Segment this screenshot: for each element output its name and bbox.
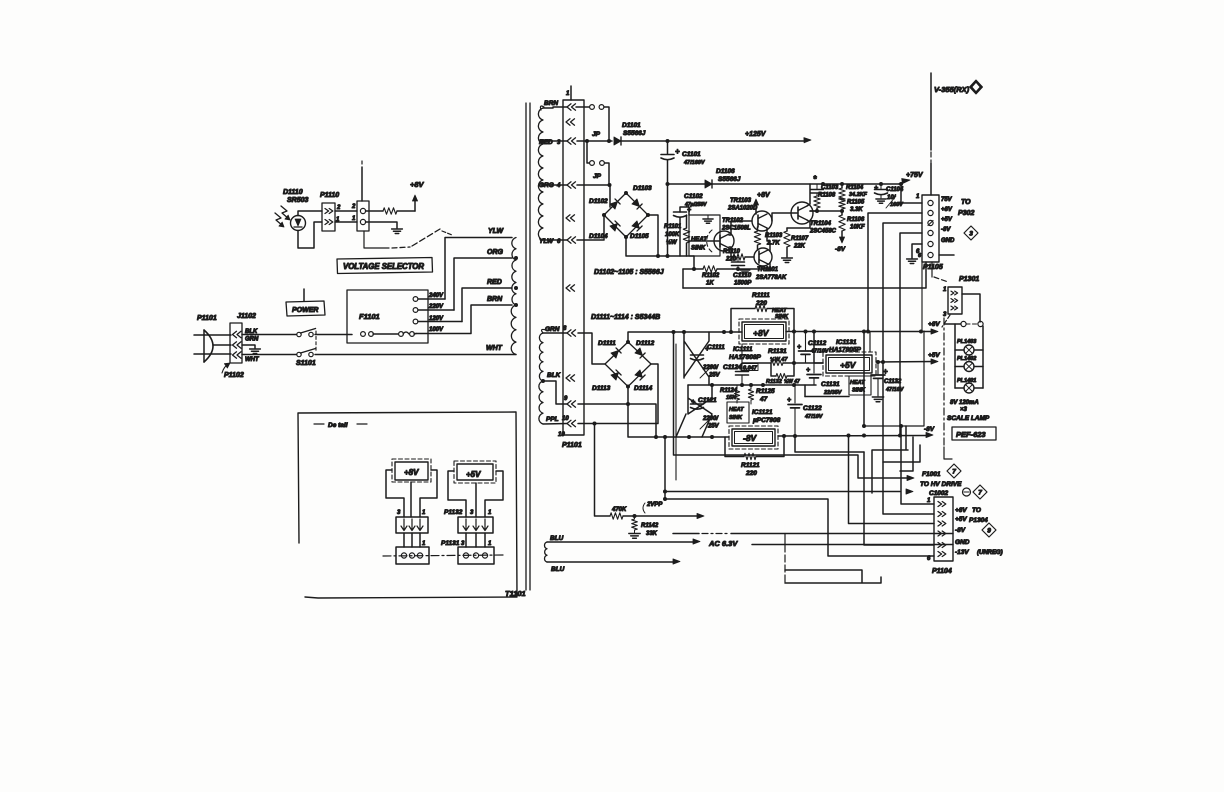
wire	[595, 424, 611, 517]
wire	[298, 222, 322, 248]
connector P1110	[320, 192, 341, 231]
connector P1104	[927, 497, 953, 575]
connector (lower left)	[396, 541, 429, 564]
diamond 7	[947, 464, 961, 478]
wire BRN	[416, 296, 512, 334]
wire +8V unreg rail	[628, 330, 742, 342]
svg-text:D1114: D1114	[634, 385, 653, 392]
node arrow TO HV	[907, 475, 914, 480]
svg-text:+: +	[874, 185, 878, 192]
pin pin3 contact	[567, 138, 576, 144]
wire	[577, 139, 612, 143]
label BLK	[547, 372, 562, 379]
wire	[793, 332, 795, 364]
resistor R1142 33K	[632, 516, 659, 537]
wire X	[676, 385, 712, 437]
heat sink (IC1121)	[727, 402, 749, 423]
pin contact (unused)	[566, 119, 575, 125]
svg-text:SR503: SR503	[287, 197, 309, 204]
svg-text:D1104: D1104	[589, 233, 608, 240]
svg-text:C1112: C1112	[808, 340, 827, 347]
wire heater	[752, 544, 934, 546]
label POWER	[286, 289, 325, 316]
node +8V	[753, 192, 771, 214]
svg-text:µPC7908: µPC7908	[752, 417, 781, 424]
resistor R1132	[766, 363, 800, 385]
transformer primary winding	[511, 238, 516, 355]
svg-text:+: +	[675, 147, 680, 156]
node -8V arrow	[924, 426, 935, 438]
ground (P1105)	[907, 244, 922, 264]
pin contact (unused)	[566, 375, 575, 381]
svg-text:RED: RED	[539, 139, 553, 146]
label D1114	[634, 385, 653, 392]
svg-text:10: 10	[558, 432, 565, 438]
svg-text:J1102: J1102	[237, 313, 256, 320]
pin pin10 contact	[567, 420, 576, 426]
wire	[812, 330, 870, 364]
label D1113	[592, 385, 611, 392]
svg-text:*: *	[813, 174, 817, 184]
svg-text:BLK: BLK	[547, 372, 562, 379]
svg-text:S1101: S1101	[296, 360, 316, 367]
svg-text:½W 47: ½W 47	[770, 356, 788, 363]
svg-text:C1124: C1124	[723, 364, 742, 371]
connector P1101 (AC plug)	[194, 315, 231, 362]
svg-text:RED: RED	[487, 279, 502, 286]
capacitor C1122	[787, 385, 824, 436]
label TO HV DRIVE	[920, 481, 962, 488]
svg-text:C1002: C1002	[929, 490, 949, 497]
svg-text:D1111~1114 : S5344B: D1111~1114 : S5344B	[591, 314, 660, 321]
node +5V arrow	[928, 352, 940, 364]
wire ORG	[454, 249, 512, 310]
block IC1121 -8V	[729, 426, 778, 449]
svg-text:C1111: C1111	[707, 344, 725, 351]
svg-text:2SC1508L: 2SC1508L	[721, 226, 751, 232]
svg-text:+8V: +8V	[757, 192, 771, 199]
label YLW 6	[539, 238, 561, 245]
svg-text:½W 47: ½W 47	[784, 378, 800, 385]
wire +8V bus	[868, 213, 922, 331]
wire	[543, 107, 567, 108]
wire	[298, 211, 322, 216]
svg-text:C1101: C1101	[682, 151, 701, 158]
node +8V	[410, 180, 425, 211]
wire	[934, 534, 953, 545]
svg-text:25V: 25V	[707, 424, 720, 430]
wire	[335, 211, 357, 222]
svg-text:D1110: D1110	[283, 189, 303, 196]
resistor (P1110 pin2 to +8V)	[366, 208, 416, 214]
wire +5V out	[876, 360, 935, 364]
connector J1102	[230, 313, 260, 363]
svg-text:S5566J: S5566J	[718, 176, 741, 183]
transistor TR1102 2SC1508L	[707, 218, 751, 252]
wire	[648, 215, 658, 256]
svg-text:JP: JP	[593, 173, 602, 180]
resistor R1124 15K	[720, 385, 740, 403]
svg-text:R1125: R1125	[756, 388, 775, 395]
svg-text:S5566J: S5566J	[623, 130, 646, 137]
svg-text:TO: TO	[972, 507, 981, 514]
svg-text:R1110: R1110	[723, 249, 740, 255]
wire lamp rails	[955, 324, 983, 388]
svg-text:GRN: GRN	[545, 326, 560, 333]
wire RED	[462, 279, 512, 322]
wire	[410, 482, 412, 517]
transformer secondary (upper)	[538, 106, 544, 240]
wire -13V line	[673, 533, 934, 535]
svg-text:2SA778AK: 2SA778AK	[755, 275, 787, 281]
wire gnd bus	[921, 262, 923, 331]
label 9	[564, 396, 568, 402]
fuse F1101	[347, 290, 428, 343]
resistor 470K	[610, 507, 634, 519]
svg-text:34.2KF: 34.2KF	[849, 192, 868, 198]
pin contact (unused)	[566, 215, 575, 221]
block +5V (detail)	[454, 461, 496, 483]
svg-text:7: 7	[978, 490, 982, 497]
svg-text:47/10V: 47/10V	[885, 387, 905, 393]
node taps	[514, 139, 545, 383]
svg-text:+8V: +8V	[941, 207, 953, 213]
wire	[729, 221, 752, 235]
svg-text:D1106: D1106	[716, 168, 735, 175]
svg-text:BLU: BLU	[550, 535, 564, 542]
resistor R1103 2.7K	[754, 227, 783, 250]
svg-text:7: 7	[952, 469, 956, 476]
label BRN	[544, 100, 558, 107]
svg-text:8V 120mA: 8V 120mA	[950, 400, 979, 406]
svg-text:IC1121: IC1121	[752, 409, 773, 416]
label IC1121	[752, 409, 781, 424]
svg-text:P1110: P1110	[320, 192, 339, 199]
node AC 6.3V arrows	[673, 539, 738, 564]
label PEF-623	[944, 427, 996, 459]
svg-text:GND: GND	[955, 539, 970, 546]
transformer T1101 core	[505, 103, 530, 598]
diamond 7b	[973, 485, 987, 499]
node 100V tap	[429, 327, 444, 333]
svg-text:100V: 100V	[429, 327, 444, 333]
label GND	[955, 539, 970, 546]
connector P1301	[943, 287, 962, 318]
svg-text:2VPP: 2VPP	[646, 502, 663, 508]
resistor R1101 100K	[664, 215, 690, 256]
svg-text:47/10V: 47/10V	[804, 414, 824, 420]
capacitor C1102	[674, 193, 708, 256]
svg-text:WHT: WHT	[486, 345, 503, 352]
svg-text:P1105: P1105	[923, 264, 943, 271]
wire	[578, 402, 656, 437]
wire	[315, 334, 352, 336]
wire	[872, 450, 908, 493]
svg-text:C1110: C1110	[733, 272, 752, 279]
wire	[666, 182, 670, 256]
svg-text:P1301: P1301	[959, 276, 979, 283]
wire	[939, 254, 954, 256]
svg-text:R1131: R1131	[768, 348, 787, 355]
label GRN 8	[545, 326, 567, 333]
pin pin9 contact	[567, 401, 576, 407]
wire	[864, 452, 934, 545]
wire X	[684, 332, 709, 385]
wire	[626, 237, 694, 258]
connector P1110 mate	[351, 201, 369, 231]
wire	[361, 161, 363, 201]
svg-text:+: +	[797, 344, 801, 351]
svg-text:TO: TO	[961, 199, 971, 206]
label ORG 4	[539, 182, 561, 189]
svg-text:+5V: +5V	[840, 360, 857, 370]
node 120V tap	[413, 316, 462, 324]
block IC1131 +5V	[823, 339, 876, 376]
wire	[900, 437, 913, 471]
label D1102-1105 S5566J	[594, 269, 665, 276]
svg-text:TR1104: TR1104	[810, 221, 832, 227]
jumper JP (row B)	[587, 141, 609, 185]
wire	[962, 294, 980, 322]
svg-text:JP: JP	[592, 131, 601, 138]
svg-text:R1104: R1104	[846, 185, 864, 191]
svg-text:220: 220	[745, 470, 757, 477]
svg-text:+8V: +8V	[404, 468, 419, 477]
label SCALE LAMP	[947, 415, 990, 422]
svg-text:C1131: C1131	[821, 381, 840, 388]
ground (J1102 GRN)	[242, 345, 260, 354]
wire	[448, 471, 466, 517]
svg-text:3.3K: 3.3K	[850, 207, 863, 213]
svg-text:+5V: +5V	[941, 217, 953, 223]
svg-text:R1102: R1102	[702, 273, 720, 279]
svg-text:TO HV DRIVE: TO HV DRIVE	[920, 481, 962, 488]
bridge D1102-D1105	[602, 191, 650, 239]
transistor TR1104 2SC458C	[791, 202, 837, 235]
LED D1110 SR503	[275, 189, 309, 231]
label D1111	[598, 340, 616, 347]
connector (under +8V)	[396, 510, 428, 533]
svg-text:R1103: R1103	[765, 233, 783, 239]
wire	[577, 215, 604, 240]
wire (link dash-dot)	[364, 229, 452, 248]
svg-text:+8V: +8V	[955, 507, 967, 514]
wire (dash-dot)	[383, 555, 505, 556]
label D1112	[636, 340, 655, 347]
wire	[675, 344, 677, 480]
wire -8V out	[778, 434, 928, 439]
svg-text:C1121: C1121	[698, 397, 717, 404]
transformer secondary (lower)	[539, 329, 546, 424]
svg-text:10/: 10/	[887, 195, 897, 201]
wire	[729, 247, 733, 257]
wire	[688, 240, 719, 242]
svg-text:×3: ×3	[960, 407, 968, 413]
svg-text:C1122: C1122	[803, 405, 822, 412]
wire	[578, 333, 605, 364]
wire	[883, 362, 934, 515]
wire -8V bus	[900, 233, 922, 435]
svg-text:-13V: -13V	[955, 549, 969, 556]
svg-text:HA17805P: HA17805P	[829, 347, 861, 354]
svg-text:D1102~1105 : S5566J: D1102~1105 : S5566J	[594, 269, 665, 276]
svg-text:22/35V: 22/35V	[823, 390, 843, 396]
wire heater loop	[785, 534, 881, 584]
svg-text:+125V: +125V	[745, 131, 767, 138]
node lamp jumpers	[944, 321, 983, 326]
label -13V UNREG	[955, 549, 1003, 556]
wire	[543, 140, 567, 142]
connector P1131	[441, 540, 494, 564]
svg-text:22K: 22K	[793, 244, 806, 250]
svg-text:PL1403: PL1403	[957, 339, 976, 345]
wire (cable dash-dot)	[943, 318, 945, 446]
svg-text:220V: 220V	[428, 304, 444, 310]
svg-text:WHT: WHT	[245, 357, 260, 363]
svg-text:100K: 100K	[665, 232, 680, 238]
svg-text:IC1111: IC1111	[733, 346, 753, 353]
svg-text:V-355(RX): V-355(RX)	[934, 85, 970, 94]
svg-text:D1111: D1111	[598, 340, 616, 347]
svg-text:SINK: SINK	[691, 246, 706, 252]
jumper JP (row A)	[590, 105, 609, 141]
svg-text:PPL: PPL	[546, 416, 559, 423]
wire	[466, 533, 485, 547]
capacitor C1124 0.047	[723, 344, 758, 385]
label C1002	[929, 490, 949, 497]
svg-text:+5V: +5V	[466, 470, 481, 479]
wire	[475, 483, 477, 517]
label JP	[592, 131, 601, 138]
svg-text:+: +	[787, 397, 791, 404]
wire YLW	[445, 228, 512, 299]
wire	[795, 436, 864, 452]
wire	[404, 533, 420, 547]
wire	[787, 220, 810, 228]
svg-text:BRN: BRN	[544, 100, 558, 107]
svg-text:47: 47	[759, 396, 768, 403]
svg-text:D1103: D1103	[633, 185, 652, 192]
svg-text:P1104: P1104	[932, 568, 952, 575]
svg-text:HEAT: HEAT	[691, 237, 708, 243]
wire +5V bus	[883, 223, 922, 361]
wire (dash-dot)	[942, 315, 950, 327]
wire +75V rail	[668, 182, 904, 186]
resistor R1105 3.3K	[839, 198, 865, 213]
svg-text:0.047: 0.047	[743, 366, 758, 372]
svg-text:D1113: D1113	[592, 385, 611, 392]
heat sink (TR1102)	[689, 215, 720, 256]
svg-text:AC 6.3V: AC 6.3V	[708, 539, 738, 548]
diode D1106	[705, 168, 741, 188]
resistor R1106 10KF	[839, 211, 865, 237]
wire	[807, 184, 810, 206]
svg-text:D1101: D1101	[622, 122, 641, 129]
capacitor C1121	[691, 397, 720, 430]
node +75V	[899, 172, 924, 184]
svg-text:470K: 470K	[611, 507, 627, 513]
lamp PL1402	[955, 356, 983, 372]
label +8V TO	[955, 507, 981, 514]
svg-text:C1102: C1102	[684, 193, 703, 200]
svg-text:VOLTAGE SELECTOR: VOLTAGE SELECTOR	[343, 262, 424, 271]
connector P1101 (secondary)	[558, 100, 584, 449]
ground	[740, 270, 750, 274]
wire	[543, 239, 567, 241]
label D1111-1114 S5566B	[591, 314, 660, 321]
pin pin4 contact	[567, 182, 576, 188]
capacitor C1110 1500P	[732, 257, 753, 287]
svg-text:De tail: De tail	[328, 422, 348, 429]
switch S1101	[296, 329, 316, 368]
svg-text:R1107: R1107	[791, 236, 809, 242]
svg-text:+8V: +8V	[410, 180, 425, 189]
svg-text:D1105: D1105	[630, 233, 649, 240]
wire	[628, 387, 729, 440]
label D1105	[630, 233, 649, 240]
block IC1111 +8V	[729, 319, 789, 361]
wire	[849, 436, 935, 524]
wire	[883, 445, 920, 462]
svg-text:R1105: R1105	[847, 200, 865, 206]
svg-text:(UNREG): (UNREG)	[977, 550, 1003, 556]
connector P1132	[444, 509, 493, 533]
label F1001	[922, 471, 941, 478]
svg-text:POWER: POWER	[292, 307, 318, 314]
node -8V	[835, 237, 846, 253]
svg-text:33K: 33K	[646, 531, 658, 537]
resistor R1104 34.2KF	[839, 184, 868, 200]
diamond 9	[982, 523, 996, 537]
resistor R1121 220	[725, 436, 784, 477]
svg-text:+8V: +8V	[928, 321, 940, 328]
capacitor C1111	[691, 344, 726, 379]
label RED 3	[539, 139, 561, 146]
svg-text:C1132: C1132	[884, 379, 902, 385]
svg-text:R1142: R1142	[641, 523, 659, 529]
svg-text:R1124: R1124	[720, 388, 738, 394]
svg-text:R1111: R1111	[752, 292, 770, 299]
svg-text:4: 4	[556, 183, 561, 189]
label +5V P1304	[955, 516, 988, 524]
wire	[420, 470, 437, 517]
wire return rail	[683, 262, 926, 288]
wire	[663, 497, 934, 556]
svg-text:TR1101: TR1101	[757, 267, 779, 273]
capacitor C1101	[661, 141, 706, 184]
ground	[629, 534, 640, 539]
wire	[576, 106, 589, 108]
resistor R1102 1K	[683, 266, 733, 287]
svg-text:+75V: +75V	[906, 172, 924, 179]
bridge D1111-D1114	[605, 340, 651, 389]
wire	[578, 364, 658, 426]
svg-text:P1304: P1304	[969, 517, 988, 524]
svg-text:T1101: T1101	[505, 589, 526, 598]
label V-355(RX)	[931, 73, 983, 195]
wire	[733, 263, 772, 271]
wire	[242, 354, 296, 356]
wire	[386, 470, 404, 517]
svg-text:P1131: P1131	[441, 540, 460, 547]
minus circle	[963, 488, 971, 496]
label heat sink	[772, 308, 789, 320]
svg-text:1500P: 1500P	[734, 281, 752, 287]
svg-text:-8V: -8V	[835, 246, 846, 253]
pin contact (unused)	[566, 285, 575, 291]
wire +8V out	[786, 330, 935, 334]
svg-text:F1001: F1001	[922, 471, 941, 478]
